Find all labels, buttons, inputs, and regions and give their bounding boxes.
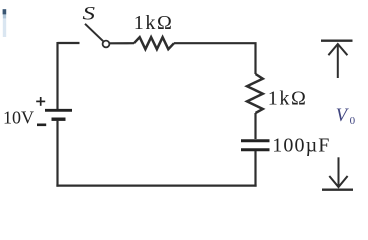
wire capacitor to bottom rail bbox=[254, 151, 256, 187]
wire resistor R1 to top-right corner bbox=[174, 43, 256, 74]
wire switch to resistor R1 bbox=[110, 42, 134, 44]
wire resistor R2 to capacitor C1 bbox=[254, 113, 256, 139]
V0 bottom reference bar bbox=[322, 189, 353, 191]
wire bottom rail bbox=[56, 185, 256, 187]
switch S bbox=[85, 24, 109, 48]
V0 down arrow bbox=[329, 157, 347, 187]
capacitor C1 plates bbox=[241, 141, 270, 150]
svg-text:S: S bbox=[83, 4, 96, 25]
svg-text:10V: 10V bbox=[3, 108, 34, 128]
svg-text:1kΩ: 1kΩ bbox=[268, 88, 308, 110]
V0 top reference bar bbox=[321, 40, 353, 42]
svg-text:1kΩ: 1kΩ bbox=[134, 12, 174, 34]
label V0 bbox=[336, 106, 356, 127]
svg-text:100µF: 100µF bbox=[272, 134, 330, 156]
svg-text:0: 0 bbox=[350, 115, 356, 127]
resistor R1 (horizontal 1k ohm) bbox=[134, 37, 174, 49]
battery V1 plates bbox=[45, 110, 72, 119]
cursor artifact (left edge) bbox=[3, 9, 7, 37]
wire left vertical bottom (battery to bottom rail) bbox=[56, 120, 58, 187]
wire top-left stub bbox=[58, 42, 80, 44]
V0 up arrow bbox=[328, 44, 347, 78]
battery minus sign bbox=[37, 124, 46, 127]
resistor R2 (vertical 1k ohm) bbox=[247, 74, 263, 113]
wire left vertical top (corner to battery) bbox=[56, 42, 58, 110]
battery plus sign bbox=[36, 97, 45, 106]
